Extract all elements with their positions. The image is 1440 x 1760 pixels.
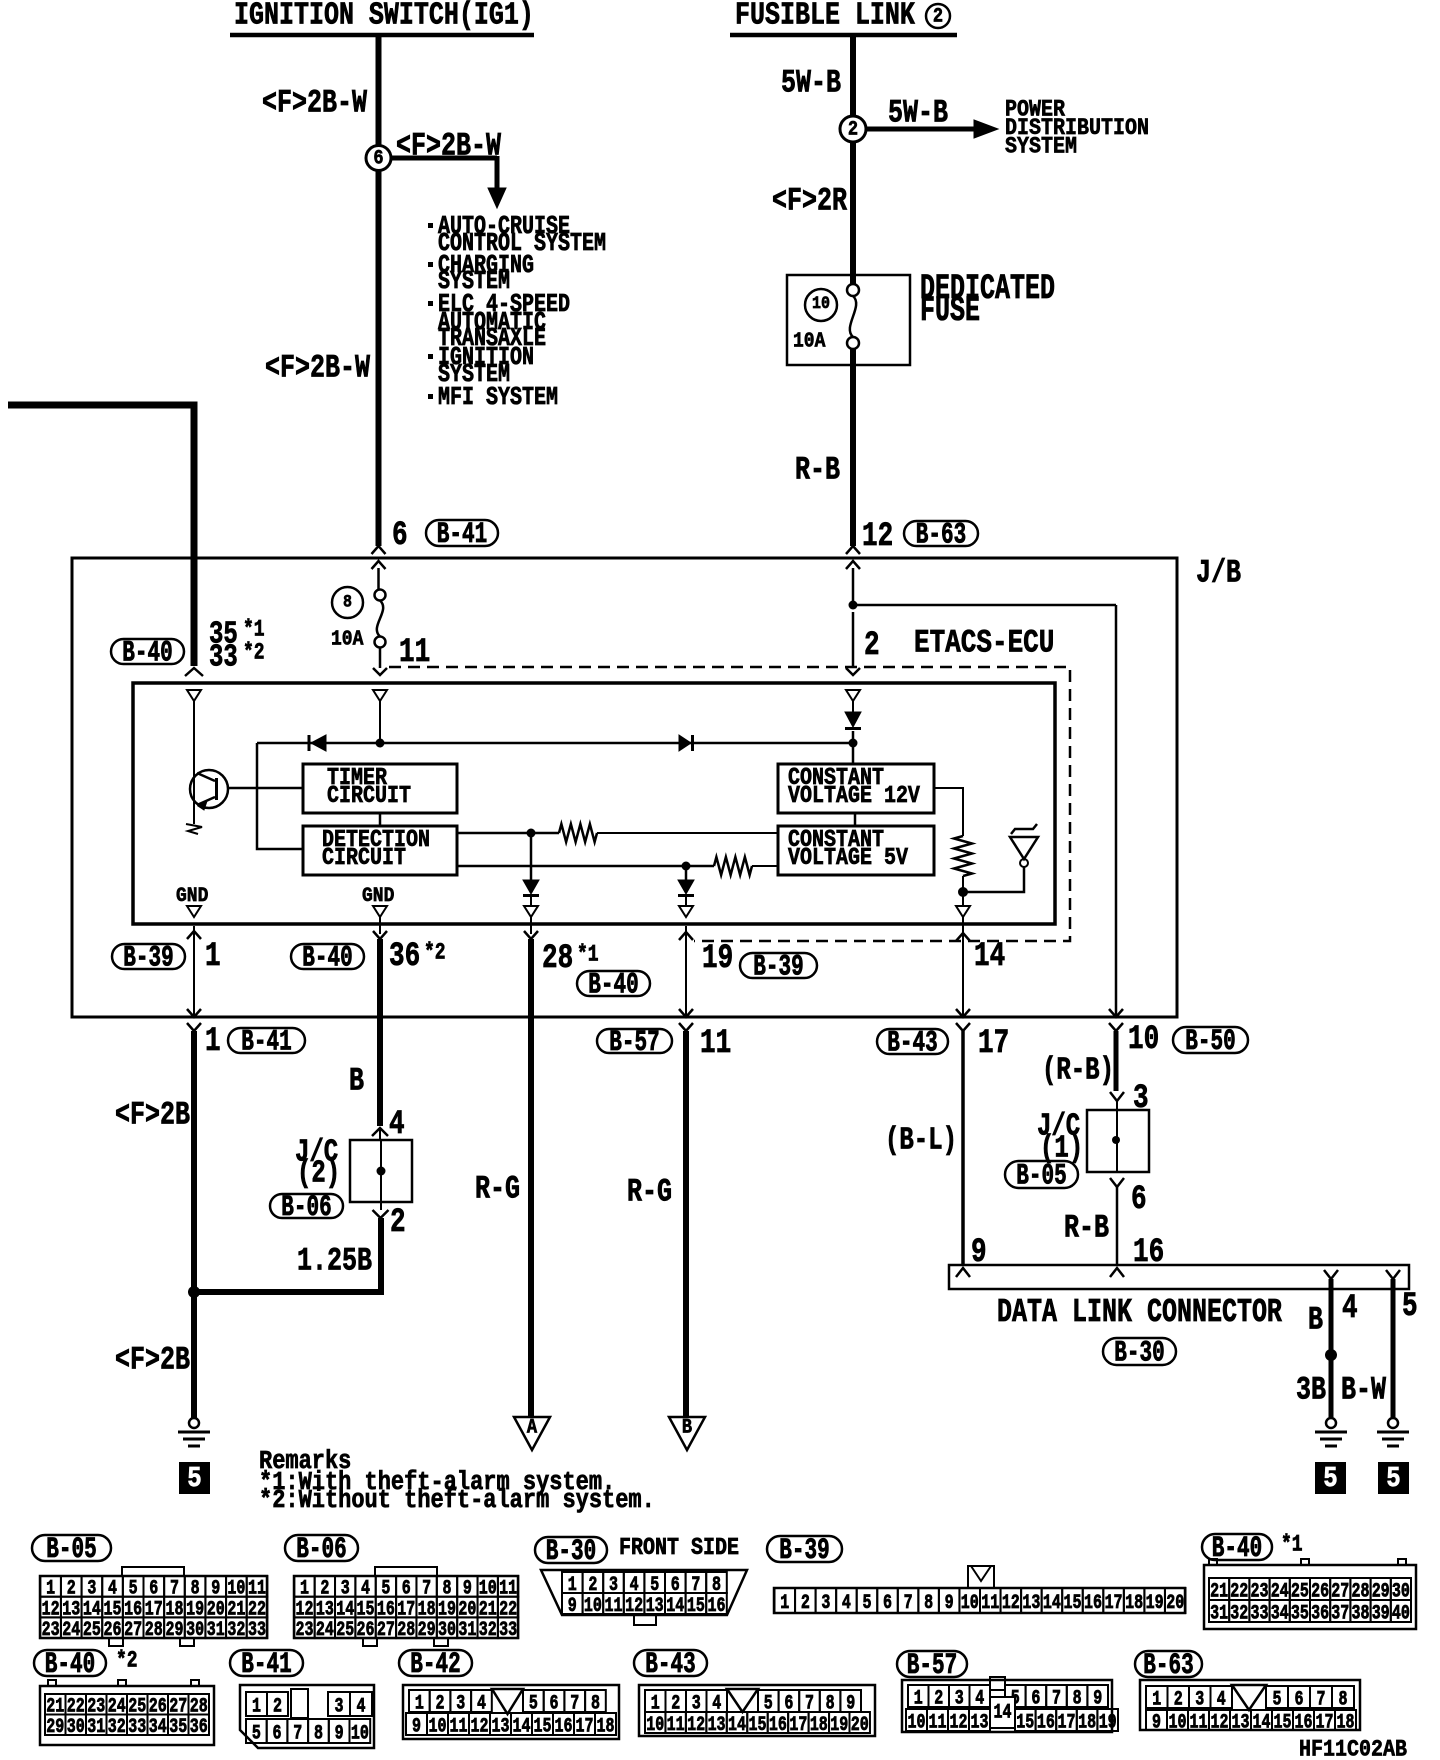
svg-text:18: 18 — [1078, 1711, 1096, 1734]
svg-text:J/B: J/B — [1196, 554, 1241, 591]
svg-text:DATA LINK CONNECTOR: DATA LINK CONNECTOR — [997, 1293, 1282, 1332]
svg-text:5: 5 — [252, 1722, 261, 1745]
svg-text:33: 33 — [248, 1619, 266, 1642]
svg-text:B-43: B-43 — [887, 1027, 937, 1060]
svg-text:(2): (2) — [297, 1157, 340, 1192]
svg-text:B-05: B-05 — [46, 1533, 96, 1566]
svg-text:4: 4 — [842, 1592, 851, 1615]
svg-text:<F>2B: <F>2B — [115, 1096, 190, 1133]
svg-text:3: 3 — [335, 1695, 344, 1718]
svg-text:28: 28 — [542, 940, 573, 978]
svg-text:5W-B: 5W-B — [888, 94, 948, 131]
svg-text:36: 36 — [1311, 1602, 1329, 1625]
svg-text:9: 9 — [945, 1592, 954, 1615]
svg-text:1: 1 — [1152, 1688, 1161, 1711]
svg-text:31: 31 — [1210, 1602, 1228, 1625]
svg-text:20: 20 — [1166, 1592, 1184, 1615]
svg-text:9: 9 — [1093, 1687, 1102, 1710]
svg-text:14: 14 — [974, 938, 1005, 976]
svg-text:34: 34 — [149, 1716, 167, 1739]
svg-text:10: 10 — [1128, 1021, 1159, 1059]
svg-text:R-B: R-B — [1064, 1209, 1109, 1246]
svg-text:B-41: B-41 — [241, 1648, 291, 1681]
svg-text:27: 27 — [377, 1619, 395, 1642]
svg-text:23: 23 — [42, 1619, 60, 1642]
svg-text:12: 12 — [1211, 1711, 1229, 1734]
svg-text:B-06: B-06 — [281, 1191, 331, 1224]
svg-text:R-G: R-G — [627, 1173, 672, 1210]
svg-text:3: 3 — [1195, 1688, 1204, 1711]
svg-text:FUSE: FUSE — [920, 292, 980, 331]
svg-text:5: 5 — [862, 1592, 871, 1615]
svg-text:13: 13 — [1022, 1592, 1040, 1615]
svg-text:16: 16 — [555, 1715, 573, 1738]
svg-text:8: 8 — [1339, 1688, 1348, 1711]
svg-text:B-43: B-43 — [645, 1648, 695, 1681]
svg-text:2: 2 — [848, 117, 858, 141]
svg-text:15: 15 — [1274, 1711, 1292, 1734]
svg-text:<F>2R: <F>2R — [772, 182, 848, 219]
svg-text:39: 39 — [1372, 1602, 1390, 1625]
svg-text:17: 17 — [1058, 1711, 1076, 1734]
svg-text:23: 23 — [295, 1619, 313, 1642]
svg-text:B-W: B-W — [1341, 1371, 1387, 1408]
svg-text:9: 9 — [412, 1715, 421, 1738]
svg-text:IGNITION SWITCH(IG1): IGNITION SWITCH(IG1) — [234, 0, 534, 33]
svg-text:2: 2 — [933, 4, 943, 28]
svg-text:33: 33 — [209, 641, 238, 676]
svg-text:32: 32 — [108, 1716, 126, 1739]
svg-text:28: 28 — [397, 1619, 415, 1642]
svg-text:(B-L): (B-L) — [885, 1124, 957, 1159]
svg-text:20: 20 — [851, 1714, 869, 1737]
svg-text:<F>2B-W: <F>2B-W — [262, 84, 368, 121]
svg-text:VOLTAGE 5V: VOLTAGE 5V — [788, 844, 909, 871]
svg-text:GND: GND — [362, 884, 394, 907]
svg-text:B-42: B-42 — [410, 1648, 460, 1681]
svg-text:28: 28 — [145, 1619, 163, 1642]
svg-text:B-41: B-41 — [437, 518, 487, 551]
svg-text:B-57: B-57 — [609, 1026, 659, 1059]
svg-text:14: 14 — [1253, 1711, 1271, 1734]
svg-text:6: 6 — [550, 1692, 559, 1715]
svg-text:11: 11 — [605, 1595, 623, 1618]
svg-text:37: 37 — [1331, 1602, 1349, 1625]
svg-text:B-40: B-40 — [1212, 1532, 1262, 1565]
svg-text:6: 6 — [273, 1722, 282, 1745]
svg-text:B-40: B-40 — [302, 942, 352, 975]
svg-text:*2:Without theft-alarm system.: *2:Without theft-alarm system. — [259, 1487, 655, 1516]
svg-text:*2: *2 — [243, 641, 265, 667]
svg-text:5W-B: 5W-B — [781, 64, 841, 101]
svg-text:B-06: B-06 — [296, 1533, 346, 1566]
svg-text:1: 1 — [914, 1687, 923, 1710]
svg-text:B-40: B-40 — [588, 969, 638, 1002]
svg-text:24: 24 — [316, 1619, 334, 1642]
svg-text:9: 9 — [568, 1595, 577, 1618]
svg-text:*1: *1 — [577, 943, 599, 969]
svg-text:33: 33 — [128, 1716, 146, 1739]
svg-text:B-40: B-40 — [122, 637, 172, 670]
svg-text:B-63: B-63 — [1143, 1649, 1193, 1682]
svg-text:8: 8 — [1073, 1687, 1082, 1710]
svg-text:35: 35 — [169, 1716, 187, 1739]
svg-text:<F>2B-W: <F>2B-W — [396, 127, 502, 164]
svg-text:SYSTEM: SYSTEM — [1005, 134, 1077, 160]
svg-text:7: 7 — [1052, 1687, 1061, 1710]
svg-text:14: 14 — [1043, 1592, 1061, 1615]
svg-text:12: 12 — [687, 1714, 705, 1737]
svg-text:FUSIBLE LINK: FUSIBLE LINK — [735, 0, 915, 33]
svg-text:16: 16 — [1037, 1711, 1055, 1734]
svg-text:8: 8 — [591, 1692, 600, 1715]
svg-text:CIRCUIT: CIRCUIT — [322, 844, 406, 871]
svg-text:A: A — [527, 1415, 538, 1439]
svg-text:14: 14 — [728, 1714, 746, 1737]
svg-text:13: 13 — [1232, 1711, 1250, 1734]
svg-text:FRONT SIDE: FRONT SIDE — [619, 1534, 739, 1561]
svg-text:14: 14 — [666, 1595, 684, 1618]
svg-text:17: 17 — [1316, 1711, 1334, 1734]
svg-text:11: 11 — [700, 1025, 731, 1063]
svg-text:5: 5 — [529, 1692, 538, 1715]
svg-text:1: 1 — [415, 1692, 424, 1715]
svg-text:11: 11 — [1190, 1711, 1208, 1734]
svg-text:ETACS-ECU: ETACS-ECU — [914, 624, 1054, 662]
svg-text:16: 16 — [1084, 1592, 1102, 1615]
svg-text:32: 32 — [1230, 1602, 1248, 1625]
svg-text:13: 13 — [971, 1711, 989, 1734]
svg-text:12: 12 — [862, 518, 893, 556]
svg-text:MFI SYSTEM: MFI SYSTEM — [438, 383, 558, 412]
svg-text:19: 19 — [830, 1714, 848, 1737]
svg-text:1.25B: 1.25B — [297, 1242, 372, 1279]
svg-text:4: 4 — [1217, 1688, 1226, 1711]
svg-text:4: 4 — [389, 1106, 405, 1144]
svg-text:11: 11 — [981, 1592, 999, 1615]
svg-text:5: 5 — [1386, 1462, 1400, 1495]
svg-text:31: 31 — [207, 1619, 225, 1642]
svg-text:5: 5 — [1273, 1688, 1282, 1711]
svg-text:4: 4 — [975, 1687, 984, 1710]
svg-text:6: 6 — [1131, 1181, 1147, 1219]
svg-text:10: 10 — [646, 1714, 664, 1737]
svg-text:3: 3 — [1133, 1080, 1149, 1118]
svg-text:B-41: B-41 — [241, 1026, 291, 1059]
svg-text:5: 5 — [187, 1462, 201, 1495]
svg-text:2: 2 — [273, 1695, 282, 1718]
svg-text:HF11C02AB: HF11C02AB — [1299, 1737, 1407, 1760]
svg-text:(R-B): (R-B) — [1042, 1054, 1114, 1089]
svg-text:16: 16 — [1133, 1234, 1164, 1272]
svg-text:14: 14 — [513, 1715, 531, 1738]
svg-text:36: 36 — [190, 1716, 208, 1739]
svg-text:10: 10 — [908, 1711, 926, 1734]
svg-text:9: 9 — [1152, 1711, 1161, 1734]
svg-text:7: 7 — [570, 1692, 579, 1715]
svg-text:34: 34 — [1271, 1602, 1289, 1625]
svg-text:25: 25 — [83, 1619, 101, 1642]
svg-text:15: 15 — [687, 1595, 705, 1618]
svg-text:B-39: B-39 — [753, 951, 803, 984]
svg-text:3: 3 — [456, 1692, 465, 1715]
svg-text:4: 4 — [1342, 1290, 1358, 1328]
svg-text:10A: 10A — [793, 328, 825, 353]
svg-text:10: 10 — [961, 1592, 979, 1615]
svg-text:11: 11 — [667, 1714, 685, 1737]
svg-text:29: 29 — [46, 1716, 64, 1739]
svg-text:32: 32 — [479, 1619, 497, 1642]
svg-text:17: 17 — [978, 1025, 1009, 1063]
svg-text:32: 32 — [227, 1619, 245, 1642]
svg-text:9: 9 — [335, 1722, 344, 1745]
svg-text:B: B — [1308, 1301, 1323, 1338]
svg-text:2: 2 — [1174, 1688, 1183, 1711]
svg-text:2: 2 — [934, 1687, 943, 1710]
svg-text:B-63: B-63 — [916, 519, 966, 552]
svg-text:*2: *2 — [116, 1649, 138, 1675]
svg-text:17: 17 — [576, 1715, 594, 1738]
svg-text:27: 27 — [124, 1619, 142, 1642]
svg-text:10: 10 — [812, 293, 830, 314]
svg-text:<F>2B: <F>2B — [115, 1341, 190, 1378]
svg-text:R-B: R-B — [795, 451, 840, 488]
svg-text:*1: *1 — [1281, 1533, 1303, 1559]
svg-text:24: 24 — [62, 1619, 80, 1642]
svg-text:B-39: B-39 — [779, 1534, 829, 1567]
svg-text:B-30: B-30 — [1114, 1337, 1164, 1370]
svg-text:12: 12 — [950, 1711, 968, 1734]
svg-text:19: 19 — [1146, 1592, 1164, 1615]
svg-text:CIRCUIT: CIRCUIT — [327, 782, 411, 809]
svg-text:*1: *1 — [243, 618, 265, 644]
svg-text:B-50: B-50 — [1185, 1025, 1235, 1058]
svg-text:1: 1 — [205, 938, 221, 976]
svg-text:14: 14 — [994, 1702, 1012, 1725]
svg-text:16: 16 — [1295, 1711, 1313, 1734]
svg-text:13: 13 — [492, 1715, 510, 1738]
svg-text:B-57: B-57 — [907, 1649, 957, 1682]
svg-text:7: 7 — [1317, 1688, 1326, 1711]
svg-text:18: 18 — [810, 1714, 828, 1737]
svg-text:5: 5 — [1323, 1462, 1337, 1495]
svg-text:6: 6 — [883, 1592, 892, 1615]
svg-text:38: 38 — [1352, 1602, 1370, 1625]
svg-text:6: 6 — [1031, 1687, 1040, 1710]
svg-text:25: 25 — [336, 1619, 354, 1642]
svg-text:13: 13 — [708, 1714, 726, 1737]
svg-text:B-39: B-39 — [123, 942, 173, 975]
svg-text:3: 3 — [955, 1687, 964, 1710]
svg-text:6: 6 — [392, 517, 408, 555]
svg-text:*2: *2 — [424, 941, 446, 967]
svg-text:19: 19 — [702, 940, 733, 978]
svg-text:1: 1 — [205, 1023, 221, 1061]
svg-text:33: 33 — [1251, 1602, 1269, 1625]
svg-text:19: 19 — [1099, 1711, 1117, 1734]
svg-text:33: 33 — [499, 1619, 517, 1642]
svg-text:3: 3 — [821, 1592, 830, 1615]
svg-text:11: 11 — [929, 1711, 947, 1734]
svg-text:8: 8 — [924, 1592, 933, 1615]
svg-text:15: 15 — [748, 1714, 766, 1737]
svg-text:B-30: B-30 — [546, 1535, 596, 1568]
svg-text:R-G: R-G — [475, 1170, 520, 1207]
svg-text:VOLTAGE 12V: VOLTAGE 12V — [788, 782, 921, 809]
svg-text:15: 15 — [534, 1715, 552, 1738]
svg-text:12: 12 — [1002, 1592, 1020, 1615]
svg-text:40: 40 — [1392, 1602, 1410, 1625]
svg-text:4: 4 — [477, 1692, 486, 1715]
svg-text:8: 8 — [314, 1722, 323, 1745]
svg-text:2: 2 — [801, 1592, 810, 1615]
svg-text:5: 5 — [1402, 1288, 1418, 1326]
svg-text:10A: 10A — [331, 626, 363, 651]
svg-text:10: 10 — [584, 1595, 602, 1618]
svg-text:6: 6 — [373, 146, 383, 170]
svg-text:36: 36 — [389, 938, 420, 976]
svg-text:3B: 3B — [1296, 1371, 1326, 1408]
svg-text:B-40: B-40 — [45, 1648, 95, 1681]
svg-text:35: 35 — [1291, 1602, 1309, 1625]
svg-text:4: 4 — [357, 1695, 366, 1718]
svg-text:1: 1 — [252, 1695, 261, 1718]
svg-text:17: 17 — [1105, 1592, 1123, 1615]
svg-text:B: B — [349, 1062, 364, 1099]
svg-text:16: 16 — [708, 1595, 726, 1618]
svg-text:7: 7 — [904, 1592, 913, 1615]
svg-text:B-05: B-05 — [1016, 1160, 1066, 1193]
svg-text:1: 1 — [780, 1592, 789, 1615]
svg-text:8: 8 — [343, 592, 352, 613]
svg-text:10: 10 — [351, 1722, 369, 1745]
svg-text:11: 11 — [450, 1715, 468, 1738]
svg-text:15: 15 — [1063, 1592, 1081, 1615]
svg-text:9: 9 — [971, 1234, 987, 1272]
svg-text:18: 18 — [597, 1715, 615, 1738]
svg-text:31: 31 — [458, 1619, 476, 1642]
svg-text:30: 30 — [67, 1716, 85, 1739]
svg-text:31: 31 — [87, 1716, 105, 1739]
svg-text:15: 15 — [1016, 1711, 1034, 1734]
svg-text:2: 2 — [390, 1204, 406, 1242]
svg-text:10: 10 — [429, 1715, 447, 1738]
svg-text:18: 18 — [1125, 1592, 1143, 1615]
svg-text:12: 12 — [471, 1715, 489, 1738]
svg-text:7: 7 — [293, 1722, 302, 1745]
svg-text:GND: GND — [176, 884, 208, 907]
svg-text:17: 17 — [789, 1714, 807, 1737]
svg-text:2: 2 — [864, 627, 880, 665]
svg-text:10: 10 — [1169, 1711, 1187, 1734]
svg-text:B: B — [682, 1415, 692, 1439]
svg-text:29: 29 — [418, 1619, 436, 1642]
svg-text:<F>2B-W: <F>2B-W — [265, 349, 371, 386]
svg-text:2: 2 — [436, 1692, 445, 1715]
svg-text:18: 18 — [1337, 1711, 1355, 1734]
svg-text:16: 16 — [769, 1714, 787, 1737]
svg-text:6: 6 — [1295, 1688, 1304, 1711]
